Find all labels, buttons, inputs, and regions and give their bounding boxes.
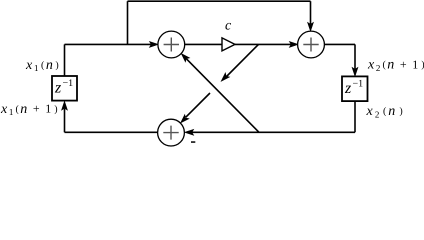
arrowhead into left of adder U2 <box>289 42 298 48</box>
svg-text:z: z <box>344 80 352 97</box>
svg-text:x1(n): x1(n) <box>25 58 60 73</box>
arrowhead into top of delay Z2 <box>352 67 358 76</box>
delay Z1 box <box>52 76 77 101</box>
wire right column down into delay Z2 <box>354 44 356 69</box>
arrowhead diagonal into adder U3 <box>179 115 189 125</box>
svg-text:c: c <box>225 19 232 34</box>
wire top feedback right vertical into adder U2 <box>310 1 312 24</box>
wire top feedback horizontal <box>128 0 311 2</box>
wire bottom row right segment into adder U3 <box>192 131 355 133</box>
wire left column up into delay Z1 <box>64 109 66 133</box>
gain triangle c <box>222 38 235 51</box>
adder U2 circle <box>298 31 325 58</box>
wire gain triangle to adder U2 <box>235 43 291 45</box>
wire top feedback left vertical <box>127 1 129 44</box>
minus sign at adder U3 input <box>191 141 195 143</box>
wire delay Z1 up to row2 <box>64 44 66 76</box>
arrowhead into left of adder U1 <box>150 42 159 48</box>
adder U2 plus sign <box>303 38 318 52</box>
wire adder U1 to gain triangle <box>185 43 222 45</box>
svg-text:−1: −1 <box>63 78 74 89</box>
wire diagonal upper segment from gain output node <box>226 44 259 77</box>
arrowhead into top of adder U2 <box>308 22 314 31</box>
svg-text:−1: −1 <box>353 78 364 89</box>
arrowhead mid diagonal <box>219 73 229 83</box>
adder U3 plus sign <box>163 126 178 140</box>
arrowhead into right of adder U3 <box>185 129 194 135</box>
wire adder U2 to right column <box>324 43 355 45</box>
wire diagonal from bottom node up into adder U1 <box>186 59 259 133</box>
wire bottom row left segment from adder U3 to left column <box>65 131 158 133</box>
delay Z2 box <box>342 76 368 101</box>
adder U1 plus sign <box>164 38 179 52</box>
wire diagonal lower segment into adder U3 <box>186 93 210 117</box>
arrowhead into bottom of delay Z1 <box>62 101 68 110</box>
wire row2 from x1(n) column to adder U1 <box>65 43 152 45</box>
wire delay Z2 down to bottom row <box>354 101 356 132</box>
svg-text:z: z <box>54 80 62 97</box>
svg-text:x2(n): x2(n) <box>366 104 405 119</box>
adder U1 circle <box>158 31 185 58</box>
svg-text:x2(n+1): x2(n+1) <box>367 57 424 73</box>
arrowhead diagonal into adder U1 <box>179 52 189 62</box>
adder U3 circle <box>158 119 185 146</box>
